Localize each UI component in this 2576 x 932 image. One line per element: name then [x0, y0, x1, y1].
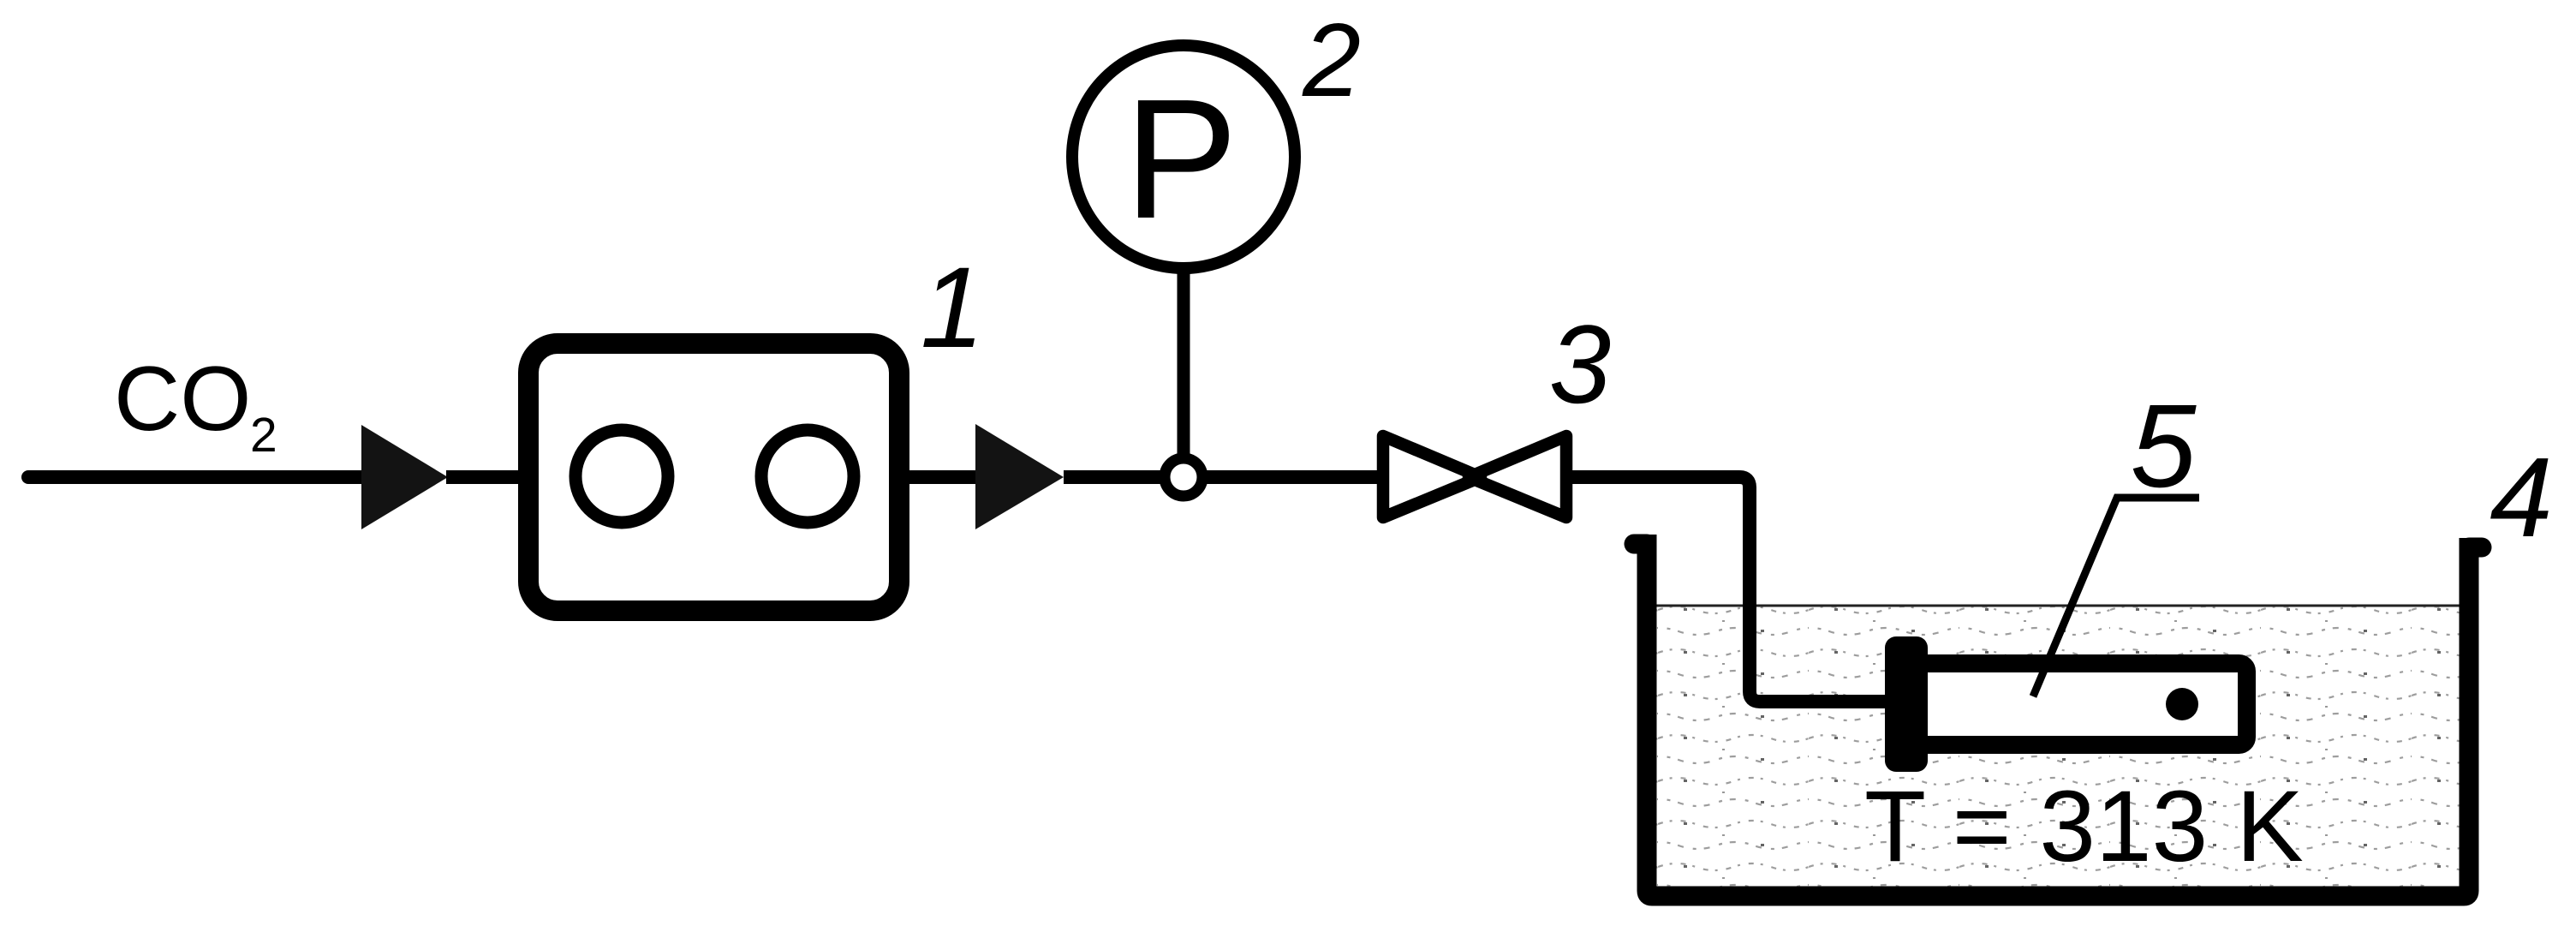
- water surface line: [1656, 605, 2460, 607]
- vessel 5 cap (black): [1885, 636, 1928, 772]
- svg-text:T = 313 K: T = 313 K: [1864, 770, 2304, 883]
- water fill of bath 4: [1656, 606, 2460, 887]
- leader line for label 5: [2033, 498, 2199, 696]
- svg-text:4: 4: [2490, 434, 2552, 560]
- svg-text:2: 2: [1302, 2, 1361, 118]
- svg-text:CO: CO: [114, 347, 252, 450]
- pipe: box to arrow A2: [909, 470, 981, 484]
- sample dot inside vessel: [2166, 688, 2198, 720]
- junction node on pipe: [1165, 458, 1202, 496]
- vessel 5 body: [1919, 664, 2247, 745]
- bath right wall top knob: [2469, 538, 2482, 558]
- pipe: arrow A2 to valve 3: [1064, 470, 1380, 484]
- pipe: arrow A1 to regulator box: [446, 470, 524, 484]
- inlet pipe (CO2 supply line): [28, 470, 368, 484]
- booster left piston circle: [575, 430, 668, 523]
- svg-text:2: 2: [250, 408, 277, 463]
- gauge stem (line gauge to node): [1178, 266, 1190, 467]
- bath left wall top knob: [1634, 535, 1647, 554]
- svg-text:3: 3: [1549, 302, 1611, 427]
- gas booster / regulator box 1: [528, 344, 899, 611]
- pipe: valve 3 to bath, with two bends: [1572, 477, 1888, 702]
- shut-off valve 3 (bowtie): [1383, 436, 1566, 517]
- booster right piston circle: [761, 430, 854, 523]
- CO2 inlet label: [114, 347, 277, 463]
- thermostatic bath 4 (tank walls): [1647, 535, 2469, 896]
- svg-text:5: 5: [2131, 380, 2197, 512]
- check valve arrow A2: [975, 424, 1064, 529]
- svg-text:1: 1: [921, 244, 985, 372]
- check valve arrow A1: [361, 425, 448, 529]
- svg-text:P: P: [1124, 64, 1238, 254]
- pressure gauge 2 (circle): [1072, 45, 1295, 268]
